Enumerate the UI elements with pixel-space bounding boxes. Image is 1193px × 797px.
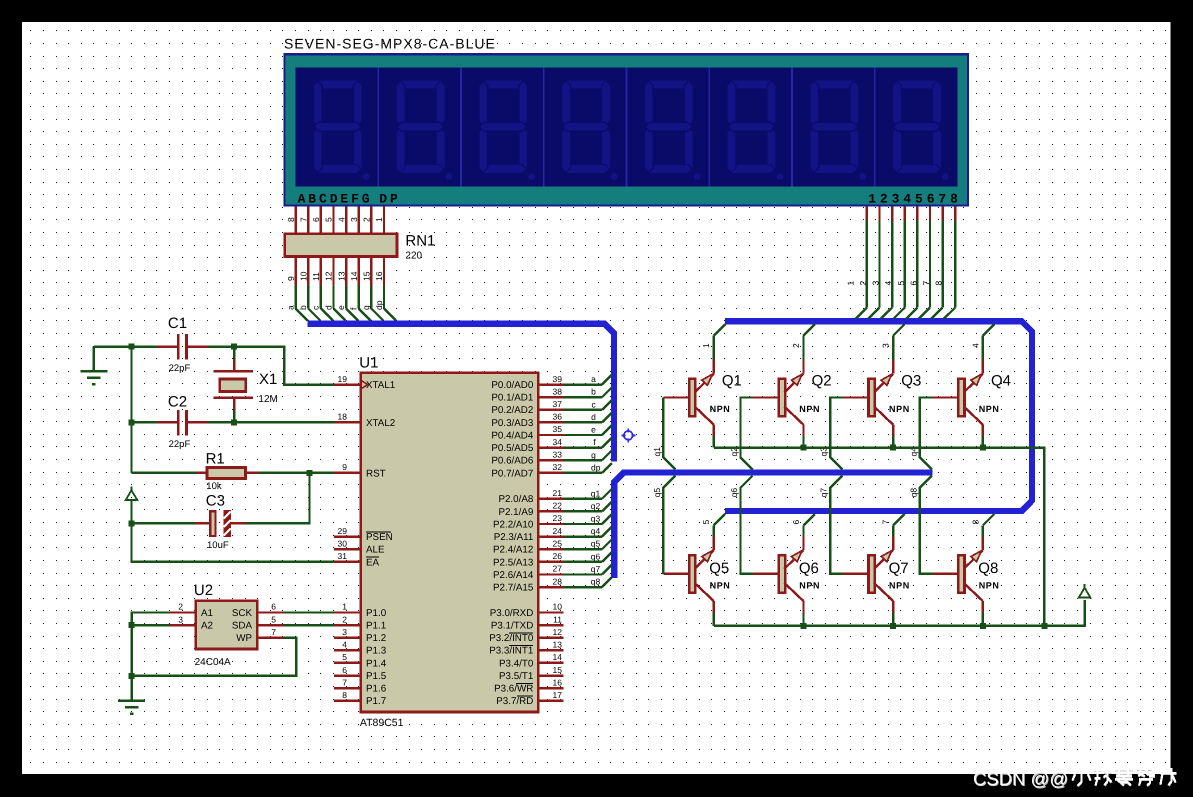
U1 right pin stubs — [538, 385, 564, 701]
svg-text:Q7: Q7 — [889, 560, 909, 577]
svg-text:A2: A2 — [201, 621, 213, 632]
svg-text:dp: dp — [374, 300, 384, 310]
svg-text:NPN: NPN — [799, 404, 820, 414]
wire left rail to C2 — [132, 421, 158, 423]
node junction X1/C2/XTAL2 — [231, 419, 237, 425]
svg-text:37: 37 — [553, 399, 563, 409]
svg-text:7: 7 — [299, 217, 309, 222]
capacitor C2 — [157, 410, 208, 436]
svg-text:q2: q2 — [591, 501, 601, 511]
svg-text:2: 2 — [791, 343, 801, 348]
svg-text:3: 3 — [178, 614, 183, 624]
U1 left pin numbers — [338, 374, 348, 700]
svg-text:Q8: Q8 — [978, 560, 998, 577]
svg-text:22pF: 22pF — [169, 439, 191, 450]
RN1 bottom pins and wires to bus — [296, 258, 396, 321]
svg-text:1: 1 — [701, 343, 711, 348]
svg-text:q8: q8 — [908, 488, 918, 498]
svg-text:P0.7/AD7: P0.7/AD7 — [491, 468, 533, 479]
svg-text:CSDN @@: CSDN @@ — [973, 768, 1068, 789]
svg-text:q1: q1 — [591, 488, 601, 498]
svg-text:P0.3/AD3: P0.3/AD3 — [491, 418, 533, 429]
svg-text:Q4: Q4 — [991, 373, 1011, 390]
svg-text:P3.7/RD: P3.7/RD — [496, 696, 533, 707]
svg-text:220: 220 — [405, 251, 422, 262]
display digit 2 — [396, 80, 452, 180]
svg-text:31: 31 — [338, 551, 348, 561]
svg-text:39: 39 — [553, 374, 563, 384]
svg-text:30: 30 — [338, 538, 348, 548]
bus2 segment q bus U1 P2 to transistor bases — [614, 473, 932, 578]
svg-text:8: 8 — [970, 520, 980, 525]
svg-text:3: 3 — [349, 217, 359, 222]
svg-text:AT89C51: AT89C51 — [360, 717, 404, 729]
svg-text:U2: U2 — [194, 582, 213, 599]
svg-text:5: 5 — [342, 652, 347, 662]
svg-text:7: 7 — [921, 281, 931, 286]
svg-text:38: 38 — [553, 386, 563, 396]
wire C2 to X1 bottom node — [208, 421, 235, 423]
svg-text:C3: C3 — [206, 493, 225, 510]
svg-text:13: 13 — [336, 271, 346, 281]
svg-text:3: 3 — [881, 343, 891, 348]
svg-text:10k: 10k — [206, 481, 222, 492]
svg-text:dp: dp — [591, 462, 601, 472]
display pin numbers 8..1 — [286, 217, 384, 222]
svg-text:c: c — [592, 399, 597, 409]
svg-text:Q3: Q3 — [901, 373, 921, 390]
svg-text:P2.7/A15: P2.7/A15 — [493, 582, 534, 593]
wire gnd to C1 and node — [94, 345, 157, 347]
wire U2 SDA to U1 P1.1 — [284, 624, 335, 626]
node junction U2 A2 — [129, 622, 135, 628]
svg-text:P3.6/WR: P3.6/WR — [494, 684, 533, 695]
svg-text:14: 14 — [553, 652, 563, 662]
svg-text:SEVEN-SEG-MPX8-CA-BLUE: SEVEN-SEG-MPX8-CA-BLUE — [284, 36, 496, 52]
power symbol VCC (reset circuit) — [126, 486, 137, 523]
svg-text:q6: q6 — [591, 551, 601, 561]
svg-text:15: 15 — [362, 271, 372, 281]
svg-text:q5: q5 — [591, 539, 601, 549]
svg-text:P2.3/A11: P2.3/A11 — [494, 532, 534, 543]
RN1 pin numbers 9..16 — [286, 271, 384, 281]
svg-text:16: 16 — [553, 677, 563, 687]
wire C1 to X1 node — [208, 345, 235, 347]
svg-text:NPN: NPN — [799, 581, 820, 591]
display segment labels ABCDEFG DP — [298, 192, 401, 207]
wires U1 P2 to bus2 — [564, 489, 612, 587]
svg-text:SDA: SDA — [232, 621, 253, 632]
display digit 7 — [810, 80, 866, 180]
ground symbol (crystal circuit) — [80, 347, 107, 385]
wires q5..q8 from bus2 to Q5-Q8 bases — [663, 476, 932, 574]
svg-text:23: 23 — [553, 513, 563, 523]
node junction Q4 collector — [980, 445, 986, 451]
wire RST node down to C3 — [245, 473, 309, 524]
display digit pins / wires to bus3 — [856, 207, 955, 319]
svg-text:26: 26 — [553, 551, 563, 561]
svg-text:11: 11 — [553, 614, 562, 624]
svg-text:10uF: 10uF — [207, 540, 229, 551]
svg-text:X1: X1 — [259, 371, 277, 388]
svg-text:36: 36 — [553, 412, 563, 422]
svg-text:4: 4 — [336, 217, 346, 222]
svg-text:P1.7: P1.7 — [366, 696, 386, 707]
wire R1 to RST — [258, 472, 334, 474]
display digit 3 — [479, 80, 535, 180]
wire left rail to R1 — [132, 472, 197, 474]
svg-text:P0.1/AD1: P0.1/AD1 — [491, 393, 533, 404]
net labels 1..4 on Q1-Q4 emitters — [701, 343, 980, 348]
svg-text:ALE: ALE — [366, 545, 385, 556]
wire U2 SCK to U1 P1.0 — [284, 611, 335, 613]
svg-text:SCK: SCK — [232, 608, 253, 619]
power symbol VCC (transistor rails) — [1079, 584, 1090, 598]
seven-seg display module frame — [284, 54, 968, 205]
svg-text:12M: 12M — [258, 394, 277, 405]
svg-text:5: 5 — [324, 217, 334, 222]
transistor Q1 — [663, 324, 725, 447]
svg-text:Q6: Q6 — [799, 560, 819, 577]
svg-text:P2.0/A8: P2.0/A8 — [498, 494, 533, 505]
svg-text:EA: EA — [366, 557, 380, 568]
eeprom U2 body — [196, 601, 257, 649]
svg-text:14: 14 — [349, 271, 359, 281]
svg-text:3: 3 — [342, 627, 347, 637]
svg-text:RN1: RN1 — [405, 233, 435, 250]
svg-text:P1.1: P1.1 — [366, 621, 386, 632]
wire node to XTAL2 — [234, 421, 334, 423]
svg-text:P1.3: P1.3 — [366, 646, 387, 657]
svg-text:RST: RST — [366, 468, 386, 479]
svg-text:13: 13 — [553, 640, 563, 650]
net labels 5..8 on Q5-Q8 emitters — [701, 520, 980, 525]
svg-text:17: 17 — [553, 690, 563, 700]
svg-text:d: d — [591, 412, 596, 422]
node junction Q8 collector — [980, 623, 986, 629]
display segment pins / wires to RN1 — [296, 207, 384, 233]
U1 right pin numbers — [553, 374, 563, 700]
svg-text:9: 9 — [286, 276, 296, 281]
display digit cell separators — [378, 68, 875, 187]
svg-text:1: 1 — [845, 281, 855, 286]
svg-text:15: 15 — [553, 665, 563, 675]
svg-text:2: 2 — [362, 217, 372, 222]
svg-text:q6: q6 — [729, 488, 739, 498]
display digit 4 — [562, 80, 618, 180]
resistor network RN1 body — [285, 234, 397, 257]
svg-text:3: 3 — [871, 281, 881, 286]
svg-text:27: 27 — [553, 564, 563, 574]
node junction left rail at C2 row — [129, 419, 135, 425]
wire left rail down (gnd net) — [130, 347, 132, 473]
svg-text:C2: C2 — [168, 394, 187, 411]
svg-text:24C04A: 24C04A — [195, 657, 231, 668]
wire C3 node down to EA — [132, 523, 335, 561]
U2 pin stubs — [169, 613, 283, 638]
svg-text:b: b — [298, 305, 308, 310]
svg-text:ABCDEFG: ABCDEFG — [298, 192, 373, 207]
U2 pin names — [201, 608, 252, 644]
svg-text:12: 12 — [553, 627, 563, 637]
U1 XTAL1 clock marker — [361, 381, 368, 389]
svg-text:P2.1/A9: P2.1/A9 — [498, 507, 533, 518]
svg-text:10: 10 — [553, 602, 563, 612]
svg-text:P1.2: P1.2 — [366, 633, 386, 644]
origin marker crosshair — [621, 428, 635, 442]
svg-text:P1.0: P1.0 — [366, 608, 387, 619]
wire U2 A1/A2 to ground rail — [132, 613, 170, 701]
svg-text:8: 8 — [286, 217, 296, 222]
svg-text:21: 21 — [553, 488, 563, 498]
svg-text:16: 16 — [374, 271, 384, 281]
node junction left rail at C1 row — [129, 344, 135, 350]
svg-text:q7: q7 — [819, 488, 829, 498]
watermark CSDN — [973, 768, 1177, 790]
transistor Q4 — [933, 324, 995, 447]
display digit 1 — [313, 80, 369, 180]
svg-text:6: 6 — [791, 520, 801, 525]
svg-text:e: e — [336, 305, 346, 310]
svg-text:b: b — [591, 387, 596, 397]
svg-text:XTAL2: XTAL2 — [366, 418, 395, 429]
crystal X1 — [214, 347, 253, 423]
node junction Q3 collector — [890, 445, 896, 451]
svg-text:P1.5: P1.5 — [366, 671, 387, 682]
capacitor C3 (electrolytic) — [195, 511, 245, 536]
svg-text:6: 6 — [311, 217, 321, 222]
svg-text:U1: U1 — [359, 354, 378, 371]
svg-text:4: 4 — [342, 640, 347, 650]
svg-text:P0.6/AD6: P0.6/AD6 — [491, 456, 533, 467]
transistor Q2 — [753, 324, 815, 447]
net labels a..dp on RN1 wires — [286, 300, 384, 310]
svg-text:34: 34 — [553, 437, 563, 447]
node junction Q7 collector — [890, 623, 896, 629]
svg-text:8: 8 — [342, 690, 347, 700]
node junction Q6 collector — [801, 623, 807, 629]
svg-text:8: 8 — [934, 281, 944, 286]
svg-text:24: 24 — [553, 526, 563, 536]
U1 left pin stubs — [334, 385, 361, 701]
U2 pin numbers — [178, 602, 276, 637]
svg-text:9: 9 — [342, 462, 347, 472]
display digit pin labels 1..8 — [845, 281, 943, 286]
ground symbol (U2) — [118, 701, 145, 714]
svg-text:c: c — [311, 305, 321, 310]
svg-text:2: 2 — [178, 602, 183, 612]
svg-text:11: 11 — [311, 272, 321, 281]
transistor Q8 — [933, 514, 995, 626]
svg-text:7: 7 — [342, 677, 347, 687]
wire U2 WP loop — [132, 638, 297, 676]
svg-text:P3.3/INT1: P3.3/INT1 — [489, 646, 533, 657]
svg-text:DP: DP — [379, 192, 400, 207]
svg-text:P3.2/INT0: P3.2/INT0 — [489, 633, 534, 644]
wires U1 P0 to bus1 — [564, 375, 612, 473]
svg-text:Q2: Q2 — [812, 373, 832, 390]
svg-text:4: 4 — [883, 281, 893, 286]
svg-text:q5: q5 — [652, 488, 662, 498]
svg-text:d: d — [323, 305, 333, 310]
svg-text:P3.1/TXD: P3.1/TXD — [491, 621, 533, 632]
svg-text:25: 25 — [553, 538, 563, 548]
svg-text:P0.4/AD4: P0.4/AD4 — [491, 430, 533, 441]
net labels q1..q4 rotated — [652, 447, 919, 457]
transistor Q5 — [663, 514, 725, 626]
svg-text:33: 33 — [553, 449, 563, 459]
svg-text:NPN: NPN — [979, 581, 1000, 591]
svg-text:35: 35 — [553, 424, 563, 434]
svg-text:P2.5/A13: P2.5/A13 — [493, 557, 534, 568]
svg-text:22pF: 22pF — [169, 363, 191, 374]
wire collector rail Q5-Q8 to power — [714, 600, 1085, 626]
bus3 segment digit bus display to transistor emitters — [725, 321, 1032, 511]
transistor Q3 — [843, 324, 905, 447]
svg-text:P2.6/A14: P2.6/A14 — [493, 570, 534, 581]
svg-text:P3.5/T1: P3.5/T1 — [499, 671, 533, 682]
wires q1..q4 from Q bases to bus2 — [663, 398, 932, 470]
svg-text:2: 2 — [858, 281, 868, 286]
svg-text:1: 1 — [342, 602, 347, 612]
node junction RST/R1/C3 — [307, 470, 313, 476]
svg-text:a: a — [591, 374, 596, 384]
svg-text:1: 1 — [374, 217, 384, 222]
node junction C3 left — [129, 520, 135, 526]
svg-text:29: 29 — [338, 526, 348, 536]
svg-text:22: 22 — [553, 501, 563, 511]
net labels q5..q8 rotated — [652, 488, 919, 498]
svg-text:PSEN: PSEN — [366, 532, 393, 543]
svg-text:6: 6 — [271, 602, 276, 612]
svg-text:A1: A1 — [201, 608, 213, 619]
node junction rails join — [1041, 623, 1047, 629]
wire collector rail Q1-Q4 (VCC net) — [714, 448, 1045, 626]
svg-text:R1: R1 — [206, 451, 225, 468]
svg-text:P2.4/A12: P2.4/A12 — [493, 545, 533, 556]
svg-text:4: 4 — [970, 343, 980, 348]
svg-text:6: 6 — [342, 665, 347, 675]
svg-text:g: g — [361, 305, 371, 310]
transistor Q6 — [753, 514, 815, 626]
svg-text:q1: q1 — [652, 447, 662, 457]
resistor R1 — [196, 467, 258, 478]
svg-text:2: 2 — [342, 614, 347, 624]
svg-text:WP: WP — [236, 633, 252, 644]
transistor Q7 — [843, 514, 905, 626]
svg-text:P3.0/RXD: P3.0/RXD — [490, 608, 534, 619]
svg-text:7: 7 — [881, 520, 891, 525]
svg-text:NPN: NPN — [710, 404, 731, 414]
node junction Q2 collector — [801, 445, 807, 451]
svg-text:a: a — [286, 305, 296, 310]
svg-text:P1.6: P1.6 — [366, 684, 387, 695]
svg-text:12: 12 — [324, 271, 334, 281]
svg-text:5: 5 — [896, 281, 906, 286]
node junction WP/ground rail — [129, 673, 135, 679]
svg-text:P0.5/AD5: P0.5/AD5 — [491, 443, 533, 454]
svg-text:NPN: NPN — [979, 404, 1000, 414]
wire node to XTAL1 — [234, 347, 334, 385]
node junction C1/X1/XTAL1 — [231, 344, 237, 350]
svg-text:XTAL1: XTAL1 — [366, 380, 395, 391]
display digit 5 — [644, 80, 700, 180]
bus1 segment data bus RN1 to U1 P0 — [307, 324, 614, 462]
svg-text:P0.0/AD0: P0.0/AD0 — [491, 380, 533, 391]
svg-text:q8: q8 — [591, 577, 601, 587]
wire power node to C3 — [132, 522, 196, 524]
display digit 6 — [727, 80, 783, 180]
capacitor C1 — [157, 334, 208, 360]
svg-text:P1.4: P1.4 — [366, 658, 387, 669]
microcontroller U1 body — [361, 373, 538, 712]
display digit 8 — [893, 80, 949, 180]
U1 pin names — [366, 380, 534, 707]
svg-text:19: 19 — [338, 374, 348, 384]
svg-text:NPN: NPN — [889, 404, 910, 414]
svg-text:P3.4/T0: P3.4/T0 — [499, 658, 534, 669]
net labels q1..q8 at U1 P2 — [591, 488, 601, 586]
svg-text:q4: q4 — [591, 526, 601, 536]
svg-text:q7: q7 — [591, 564, 601, 574]
svg-text:Q1: Q1 — [722, 373, 742, 390]
net labels a..dp at U1 P0 — [591, 374, 601, 472]
svg-text:6: 6 — [908, 281, 918, 286]
svg-text:C1: C1 — [168, 315, 187, 332]
svg-text:g: g — [591, 450, 596, 460]
svg-text:7: 7 — [271, 627, 276, 637]
svg-text:32: 32 — [553, 462, 563, 472]
svg-text:5: 5 — [271, 614, 276, 624]
svg-text:10: 10 — [299, 271, 309, 281]
svg-text:NPN: NPN — [710, 581, 731, 591]
svg-text:NPN: NPN — [889, 581, 910, 591]
svg-text:e: e — [591, 425, 596, 435]
svg-text:q3: q3 — [591, 514, 601, 524]
svg-text:28: 28 — [553, 576, 563, 586]
svg-text:12345678: 12345678 — [868, 192, 962, 207]
svg-text:18: 18 — [338, 412, 348, 422]
svg-text:P0.2/AD2: P0.2/AD2 — [491, 405, 533, 416]
svg-text:5: 5 — [701, 520, 711, 525]
svg-text:P2.2/A10: P2.2/A10 — [493, 519, 534, 530]
svg-text:Q5: Q5 — [709, 560, 729, 577]
